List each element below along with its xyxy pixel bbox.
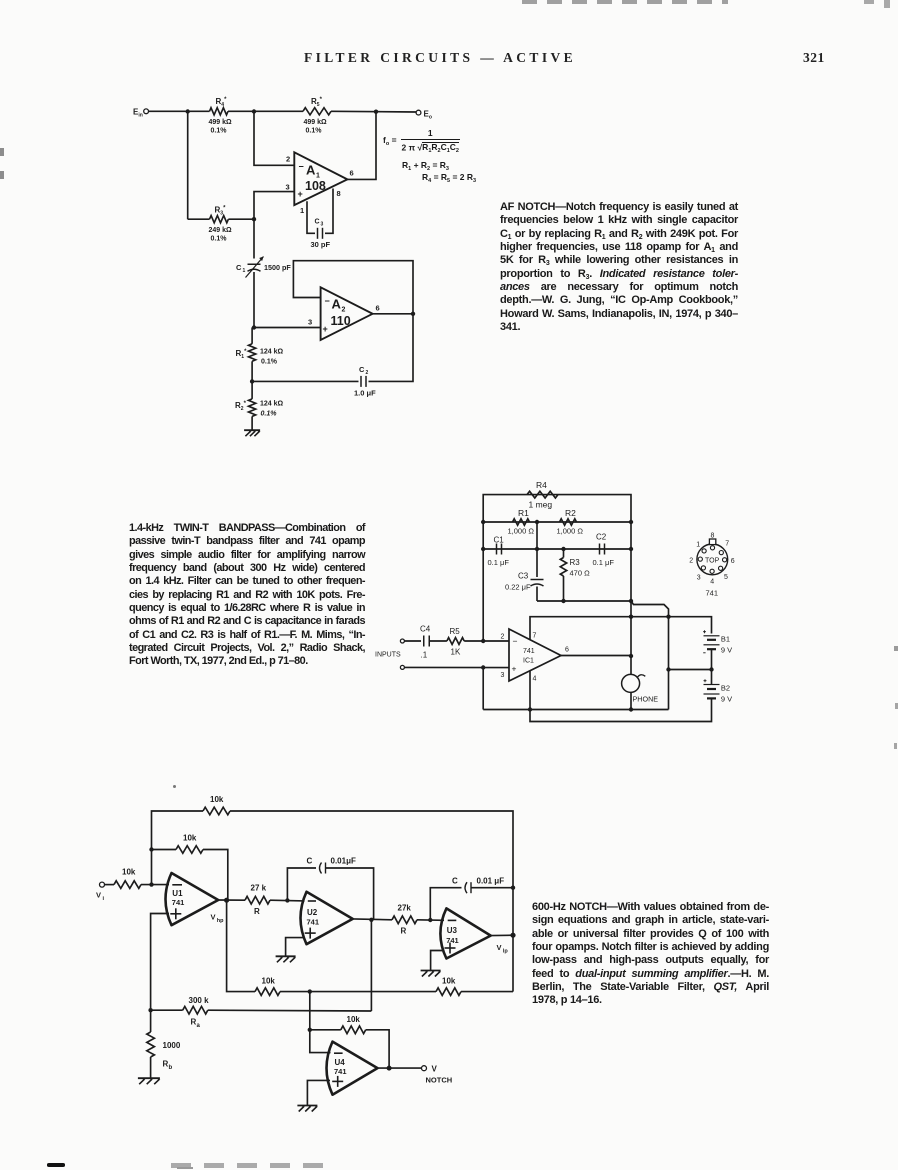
svg-text:1500 pF: 1500 pF [264,263,291,272]
IC 741 pinout top view [689,533,735,598]
svg-text:R2: R2 [565,508,576,518]
node right branch cap row [511,886,515,890]
svg-text:C: C [236,263,242,272]
node U2 input [285,898,289,902]
svg-text:4: 4 [710,579,714,586]
wire top feedback row 10k [152,811,204,885]
svg-text:0.1%: 0.1% [306,128,323,135]
node battery midpoint [709,667,713,671]
wire U2 output drop to Ra row [370,920,372,1011]
wire Vi to 10k [105,884,115,886]
svg-text:7: 7 [725,541,729,548]
svg-text:249 kΩ: 249 kΩ [209,227,233,234]
svg-text:3: 3 [501,672,505,679]
svg-text:10k: 10k [347,1015,361,1024]
op-amp A2 110 [321,287,380,340]
circuit 1: AF NOTCH schematic [0,0,1,1]
resistor R1 124k [236,344,284,366]
scan artifact: small speck [173,785,176,788]
capacitor C4 .1 [420,625,431,660]
node pin3 junction [481,665,485,669]
svg-text:C: C [307,857,313,866]
svg-text:0.1 μF: 0.1 μF [488,558,510,567]
ground Rb [138,1078,160,1084]
resistor R5 499k [303,97,331,135]
svg-text:1,000 Ω: 1,000 Ω [508,527,535,536]
svg-text:0.1%: 0.1% [261,411,278,418]
capacitor C2 1.0uF [354,365,376,398]
svg-text:Ein: Ein [133,108,143,119]
node U4 feedback branch [308,1028,312,1032]
svg-text:R5*: R5* [311,97,323,108]
wire U1 plus input down to Ra row [151,914,169,1011]
svg-text:10k: 10k [210,795,224,804]
wire E_in branch down to R3 [187,112,189,220]
wire E_in to R4 [149,110,210,112]
svg-text:R3: R3 [570,558,581,567]
svg-text:6: 6 [376,304,380,313]
wire node down to C1 [253,219,255,258]
input terminal Vi [96,882,105,902]
svg-text:−: − [513,636,518,646]
svg-text:27 k: 27 k [251,884,267,893]
wire bottom supply return [530,707,712,722]
wire Ra lead [151,1009,183,1011]
resistor R3 470 ohm [560,549,590,601]
node right R2 row [629,520,633,524]
svg-text:6: 6 [565,647,569,654]
svg-text:0.1%: 0.1% [211,236,228,243]
wire output node down to phone [630,656,632,675]
wire 27k to U2 [270,899,305,902]
wire C1 down to A2 input node [253,272,255,328]
node bottom row crossing [629,599,633,603]
node output junction [374,110,378,114]
wire pin1 drop [307,201,315,233]
svg-text:10k: 10k [183,834,197,843]
svg-text:110: 110 [331,314,351,328]
op-amp IC1 741 [501,629,570,683]
resistor R2 1000 ohm [557,508,584,536]
wire U2 plus input to ground [286,938,304,956]
resistor 10k right summing [436,977,461,996]
svg-text:10k: 10k [262,977,276,986]
scan artifact: top edge partial print [522,0,728,4]
svg-text:V: V [497,943,502,952]
svg-text:R5: R5 [450,627,461,636]
wire U4 plus input to ground [307,1080,330,1105]
svg-text:0.1%: 0.1% [211,128,228,135]
wire R1 R2 row [483,521,631,523]
wire A2 feedback loop [293,261,413,314]
input terminal E_in [133,108,149,119]
op-amp U3 741 [440,908,490,958]
node left R1 row [481,520,485,524]
wire top row to right branch [230,811,513,888]
node output junction [629,654,633,658]
svg-text:124 kΩ: 124 kΩ [260,401,284,408]
svg-text:U3: U3 [447,926,458,935]
svg-text:30 pF: 30 pF [311,240,331,249]
op-amp U2 741 [301,892,353,944]
svg-text:2: 2 [366,370,369,376]
resistor Rb 1000 [147,1010,181,1071]
resistor 10k left summing [255,977,280,996]
wire 10k to U1 [141,884,169,886]
node R1-R2-C2 [250,379,254,383]
capacitor C3 0.22uF [505,572,544,592]
node R1-R2 junction [535,520,539,524]
capacitor C 0.01uF U3 [452,877,504,894]
wire A1 output up to node [347,112,376,180]
resistor R3 249k [209,206,233,243]
wire pin8 drop [325,189,333,234]
node R3 top [561,547,565,551]
svg-text:741: 741 [307,918,320,927]
ground U2 [276,956,296,962]
node A2 pin3 [252,325,256,329]
svg-text:2: 2 [286,155,290,164]
node supply row mid [666,615,670,619]
svg-text:470 Ω: 470 Ω [570,569,591,578]
resistor 10k top feedback [203,795,230,815]
text block: AF NOTCH caption [500,201,738,334]
resistor 10k U4 feedback [341,1015,366,1034]
wire lower input to IC1 pin3 [404,666,509,668]
wire node to pin 2 riser [254,112,294,166]
svg-text:+: + [323,324,328,334]
op-amp A1 108 [286,152,354,215]
svg-text:10k: 10k [442,977,456,986]
input terminal lower [400,665,404,669]
battery B2 9V [704,670,733,708]
svg-text:8: 8 [337,189,341,198]
wire right branch down to summing row [512,888,514,992]
wire summing row right 10k [461,991,513,993]
svg-text:2: 2 [342,307,346,314]
resistor 27k first [245,884,270,917]
resistor R4 499k [209,97,233,135]
svg-text:A: A [306,163,316,178]
svg-text:C4: C4 [420,625,431,634]
svg-text:1.0 μF: 1.0 μF [354,389,376,398]
svg-text:C: C [452,877,458,886]
node U4 output [387,1066,392,1071]
resistor 10k input [114,868,141,889]
battery B1 polarity marks [703,630,706,653]
svg-text:3: 3 [321,222,324,228]
wire Rb to ground [150,1057,152,1078]
battery B2 polarity mark [704,679,707,682]
text block: 1.4-kHz twin-T bandpass caption [129,522,365,669]
svg-text:+: + [512,664,517,674]
wire 27k to U3 [417,919,444,922]
node U1 inverting input [149,882,153,886]
wire A2 output [373,313,413,315]
resistor Ra 300k [183,996,209,1029]
node summing junction [308,989,312,993]
wire U4 feedback corner to output [366,1030,389,1068]
svg-text:+: + [298,189,303,199]
node Ra junction [148,1008,152,1012]
capacitor C3 30pF [311,219,331,250]
page header: FILTER CIRCUITS - ACTIVE [304,50,576,66]
svg-text:V: V [432,1065,438,1074]
svg-text:5: 5 [724,574,728,581]
output terminal E_o [416,110,432,121]
svg-text:9 V: 9 V [721,646,732,655]
svg-text:0.22 μF: 0.22 μF [505,583,531,592]
svg-text:U4: U4 [335,1058,346,1067]
wire R3 to node [228,218,254,220]
circuit 2: 1.4-kHz twin-T bandpass schematic [0,0,1,1]
capacitor C1 variable 1500pF [236,257,291,278]
svg-text:6: 6 [731,558,735,565]
resistor R2 124k [235,399,284,418]
svg-text:hp: hp [217,918,224,924]
capacitor C 0.01uF U2 [307,857,356,874]
equation R1+R2=R3 [402,159,476,184]
svg-text:C2: C2 [596,533,607,542]
svg-text:27k: 27k [398,904,412,913]
scan artifact: right edge marks [894,646,898,651]
svg-text:741: 741 [706,589,719,598]
wire top row R4 [483,495,631,549]
wire summing row left 10k [280,991,310,993]
svg-text:741: 741 [334,1067,347,1076]
svg-text:.1: .1 [421,651,428,660]
svg-text:C: C [315,219,320,226]
wire pin3 node down to R1 [251,328,253,344]
svg-text:0.1%: 0.1% [261,359,278,366]
svg-text:PHONE: PHONE [633,695,659,704]
wire R2 to ground [251,416,253,429]
svg-text:U1: U1 [172,889,183,898]
svg-text:741: 741 [446,936,459,945]
wire U2 output [353,918,392,921]
input terminal upper [400,639,404,643]
svg-text:1000: 1000 [163,1041,181,1050]
wire summing node down to U4 [310,992,331,1053]
svg-text:10k: 10k [122,868,136,877]
wire ground row [483,709,668,711]
svg-text:C: C [359,365,365,374]
ground U4 [297,1106,317,1112]
wire twin-T left branch down [482,549,484,641]
svg-text:V: V [211,913,216,922]
svg-text:C3: C3 [518,572,529,581]
wire C row to right branch [471,887,513,889]
resistor R1 1000 ohm [508,508,535,536]
svg-text:lp: lp [503,949,509,955]
wire input to C4 [404,640,421,642]
node crossing C row [535,547,539,551]
wire second feedback row [152,849,177,851]
wire pin4 drop [529,671,531,710]
wire Ra row to U2 output branch [208,1009,372,1012]
node pin2 junction [481,639,485,643]
svg-text:R: R [254,907,260,916]
svg-text:1: 1 [696,542,700,549]
node right C row [629,547,633,551]
node mid riser [666,667,670,671]
svg-text:R2*: R2* [235,401,247,412]
wire pin3 riser [254,192,294,220]
capacitor C1 0.1uF [488,536,510,568]
svg-text:2: 2 [689,558,693,565]
output terminal V NOTCH [422,1065,453,1085]
wire second row corner to Vhp node [203,850,228,901]
scan artifact: bottom edge marks [47,1163,65,1167]
svg-text:IC1: IC1 [523,658,534,665]
wire node to A2 pin 3 [254,318,321,328]
wire U2 cap feedback riser [287,868,316,900]
scan artifact: left edge marks [0,148,4,156]
wire C row [483,548,631,550]
svg-text:7: 7 [533,633,537,640]
node phone ground row [629,707,633,711]
op-amp U1 741 [166,873,219,925]
svg-text:741: 741 [172,898,185,907]
node pin4 ground row [528,707,532,711]
svg-text:499 kΩ: 499 kΩ [209,119,233,126]
svg-text:0.01 μF: 0.01 μF [477,877,505,886]
svg-text:a: a [197,1023,201,1029]
wire R1R2 junction down through C3 [536,522,538,577]
svg-text:3: 3 [697,575,701,582]
svg-text:−: − [299,162,304,172]
node Vlp [497,933,516,955]
label INPUTS [375,652,401,659]
resistor R4 1 meg [527,480,558,510]
wire mid riser corner [668,670,670,710]
svg-text:1,000 Ω: 1,000 Ω [557,527,584,536]
op-amp U4 741 [327,1042,378,1095]
svg-text:NOTCH: NOTCH [426,1076,453,1085]
svg-text:499 kΩ: 499 kΩ [304,119,328,126]
wire C4 to R5 [430,640,447,642]
node R3 junction [252,217,256,221]
node supply row crossing [629,615,633,619]
svg-text:−: − [325,296,330,306]
wire IC1 output [561,655,631,657]
resistor 10k U1 feedback [176,834,203,854]
node U2 output [369,918,373,922]
wire C2 to node [252,380,358,382]
svg-text:9 V: 9 V [721,695,732,704]
svg-text:3: 3 [308,318,312,327]
formula f_o for AF notch [382,128,461,153]
wire phone to ground row [630,692,632,709]
svg-text:R1: R1 [518,508,529,518]
svg-text:8: 8 [711,533,715,540]
svg-text:1 meg: 1 meg [529,500,553,510]
svg-text:3: 3 [286,183,290,192]
svg-text:R1*: R1* [236,349,248,360]
wire A2 output down to C2 [369,314,414,382]
svg-text:1: 1 [243,268,246,274]
battery B1 9V [704,635,733,670]
svg-text:INPUTS: INPUTS [375,652,401,659]
wire to R3 [188,218,210,220]
ground U3 [421,971,441,977]
node R3 bottom [561,599,565,603]
svg-text:i: i [103,896,105,902]
earphone PHONE [622,674,659,703]
node second feedback branch [149,847,153,851]
resistor R5 1K [447,627,464,657]
wire right branch down to output node [630,522,632,657]
svg-text:2: 2 [501,634,505,641]
wire U1 output [218,899,245,901]
wire R4 to R5 [228,110,303,112]
ground circuit 1 [244,430,260,436]
wire R5 to E_o [331,110,416,113]
svg-text:741: 741 [523,648,535,655]
svg-text:U2: U2 [307,908,318,917]
node at E_in branch [186,109,190,113]
page number 321 [803,50,825,66]
wire battery midpoint tap [669,669,712,671]
wire twin-T bottom row [537,601,669,670]
svg-text:A: A [332,297,342,312]
wire U3 cap feedback riser [430,888,461,920]
svg-text:C1: C1 [494,536,505,545]
svg-text:B1: B1 [721,635,730,644]
svg-text:Eo: Eo [424,110,432,121]
svg-text:4: 4 [533,676,537,683]
wire pin7 riser to supply row [530,617,712,640]
svg-text:R: R [401,927,407,936]
svg-text:0.01μF: 0.01μF [331,857,356,866]
svg-text:1: 1 [300,206,304,215]
wire R5 to IC1 pin2 [464,640,509,642]
wire summing row middle [310,991,436,993]
node U3 input [428,918,432,922]
wire Vhp branch down to summing row [227,900,255,991]
node A2 output [411,312,415,316]
wire U4 feedback row [310,1029,341,1031]
svg-text:0.1 μF: 0.1 μF [593,558,615,567]
svg-text:R4: R4 [536,480,547,490]
wire C row to U2 output riser [326,868,374,920]
svg-text:1K: 1K [451,648,461,657]
svg-text:TOP: TOP [705,557,720,564]
svg-text:b: b [169,1065,173,1071]
svg-text:6: 6 [350,169,354,178]
node left C row [481,547,485,551]
node Vhp output [211,898,230,924]
wire U3 output Vlp [491,934,513,936]
wire pin3 node down to ground row [482,668,484,710]
svg-text:300 k: 300 k [189,996,210,1005]
circuit 3: 600-Hz notch state-variable filter schematic [0,0,1,1]
wire C3 to bottom row [536,587,538,602]
svg-text:B2: B2 [721,684,730,693]
wire U4 output to terminal [378,1067,422,1069]
resistor 27k second [392,904,417,936]
wire R1 to node [251,361,253,399]
svg-text:108: 108 [305,179,326,193]
wire U3 plus input to ground [431,951,444,971]
capacitor C2 0.1uF [593,533,615,568]
text block: 600-Hz notch caption [532,901,769,1008]
node R4-R5 feedback [252,109,256,113]
svg-text:V: V [96,891,101,900]
svg-text:124 kΩ: 124 kΩ [260,349,284,356]
